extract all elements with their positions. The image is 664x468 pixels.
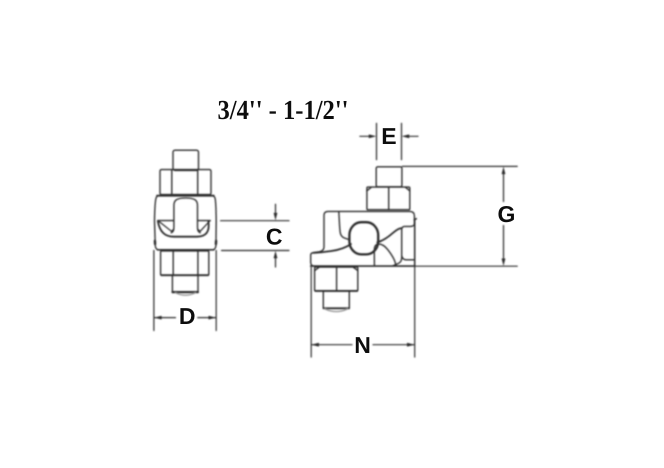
jaw tick right (198, 229, 201, 231)
C arrow top (275, 204, 277, 216)
lower hex nut (left view) (161, 251, 209, 275)
svg-text:E: E (381, 123, 396, 149)
C extension line bottom (222, 250, 290, 252)
bolt head (right view) (376, 167, 402, 187)
svg-text:G: G (498, 201, 516, 227)
D extension line right (215, 251, 217, 331)
neck inner line (339, 212, 349, 240)
left body top edge emphasis (157, 195, 214, 197)
G extension line top (402, 165, 517, 167)
jaw slant left (158, 221, 171, 231)
svg-text:N: N (354, 332, 371, 358)
clamp upper casting outline (right view) (311, 211, 415, 266)
center dome / saddle tongue (left view) (171, 198, 200, 233)
left body bottom edge emphasis (158, 249, 214, 251)
D extension line left (153, 251, 155, 331)
D dimension line with arrows (154, 317, 216, 319)
C arrow bottom (275, 255, 277, 268)
body bottom edge (right view) (311, 265, 415, 267)
svg-text:D: D (179, 303, 196, 329)
right edge lower casting (right view) (414, 219, 416, 266)
upper hex nut (left view) (160, 170, 211, 195)
bolt head (left view) (173, 150, 199, 170)
jaw tick left (171, 229, 174, 231)
lower-left wing sweep to foot (313, 244, 351, 253)
bolt stub (right view) (323, 291, 349, 308)
body corner ticks (155, 241, 216, 244)
E extension line right (401, 123, 403, 159)
svg-text:3/4'' - 1-1/2'': 3/4'' - 1-1/2'' (218, 94, 349, 125)
nut facet line (right view upper nut) (388, 187, 390, 209)
front jaw plate (374, 244, 396, 266)
N dimension line with arrows (312, 344, 415, 346)
nut facet line (right view lower nut) (336, 267, 338, 291)
E extension line left (376, 123, 378, 159)
clamp body outline (left view) (155, 196, 217, 250)
svg-text:C: C (266, 224, 283, 250)
jaw saddle smile curve (158, 221, 209, 236)
bolt stub (left view) (172, 275, 198, 292)
bolt tip chamfer arc (right view) (325, 309, 348, 312)
E arrow right (409, 135, 418, 137)
jaw slant right (200, 221, 210, 231)
bolt stub bottom thick edge (173, 291, 198, 293)
bolt stub bottom thick edge (right view) (324, 307, 350, 309)
N extension line left (310, 268, 312, 358)
lower hex nut (right view) (315, 267, 358, 291)
G extension line bottom (415, 265, 517, 267)
nut chamfers (right view lower nut) (315, 267, 358, 270)
jaw top edge right segment (198, 220, 210, 222)
nut chamfers (right view upper nut) (367, 187, 410, 190)
upper hex nut (right view) (367, 187, 410, 210)
step to right edge (402, 257, 415, 260)
S-curve upper jaw surface (377, 228, 401, 242)
nut facet lines (left view upper nut) (172, 170, 198, 195)
nut facet lines (left view lower nut) (173, 251, 198, 275)
E arrow left (360, 135, 369, 137)
jaw top edge left segment (158, 220, 174, 222)
G dimension line with arrows (503, 171, 505, 263)
bolt tip chamfer arc (176, 293, 196, 295)
C extension line top (221, 220, 289, 222)
bolt boss circle (349, 222, 378, 254)
N extension line right (414, 266, 416, 357)
casting nub tick (414, 219, 416, 220)
